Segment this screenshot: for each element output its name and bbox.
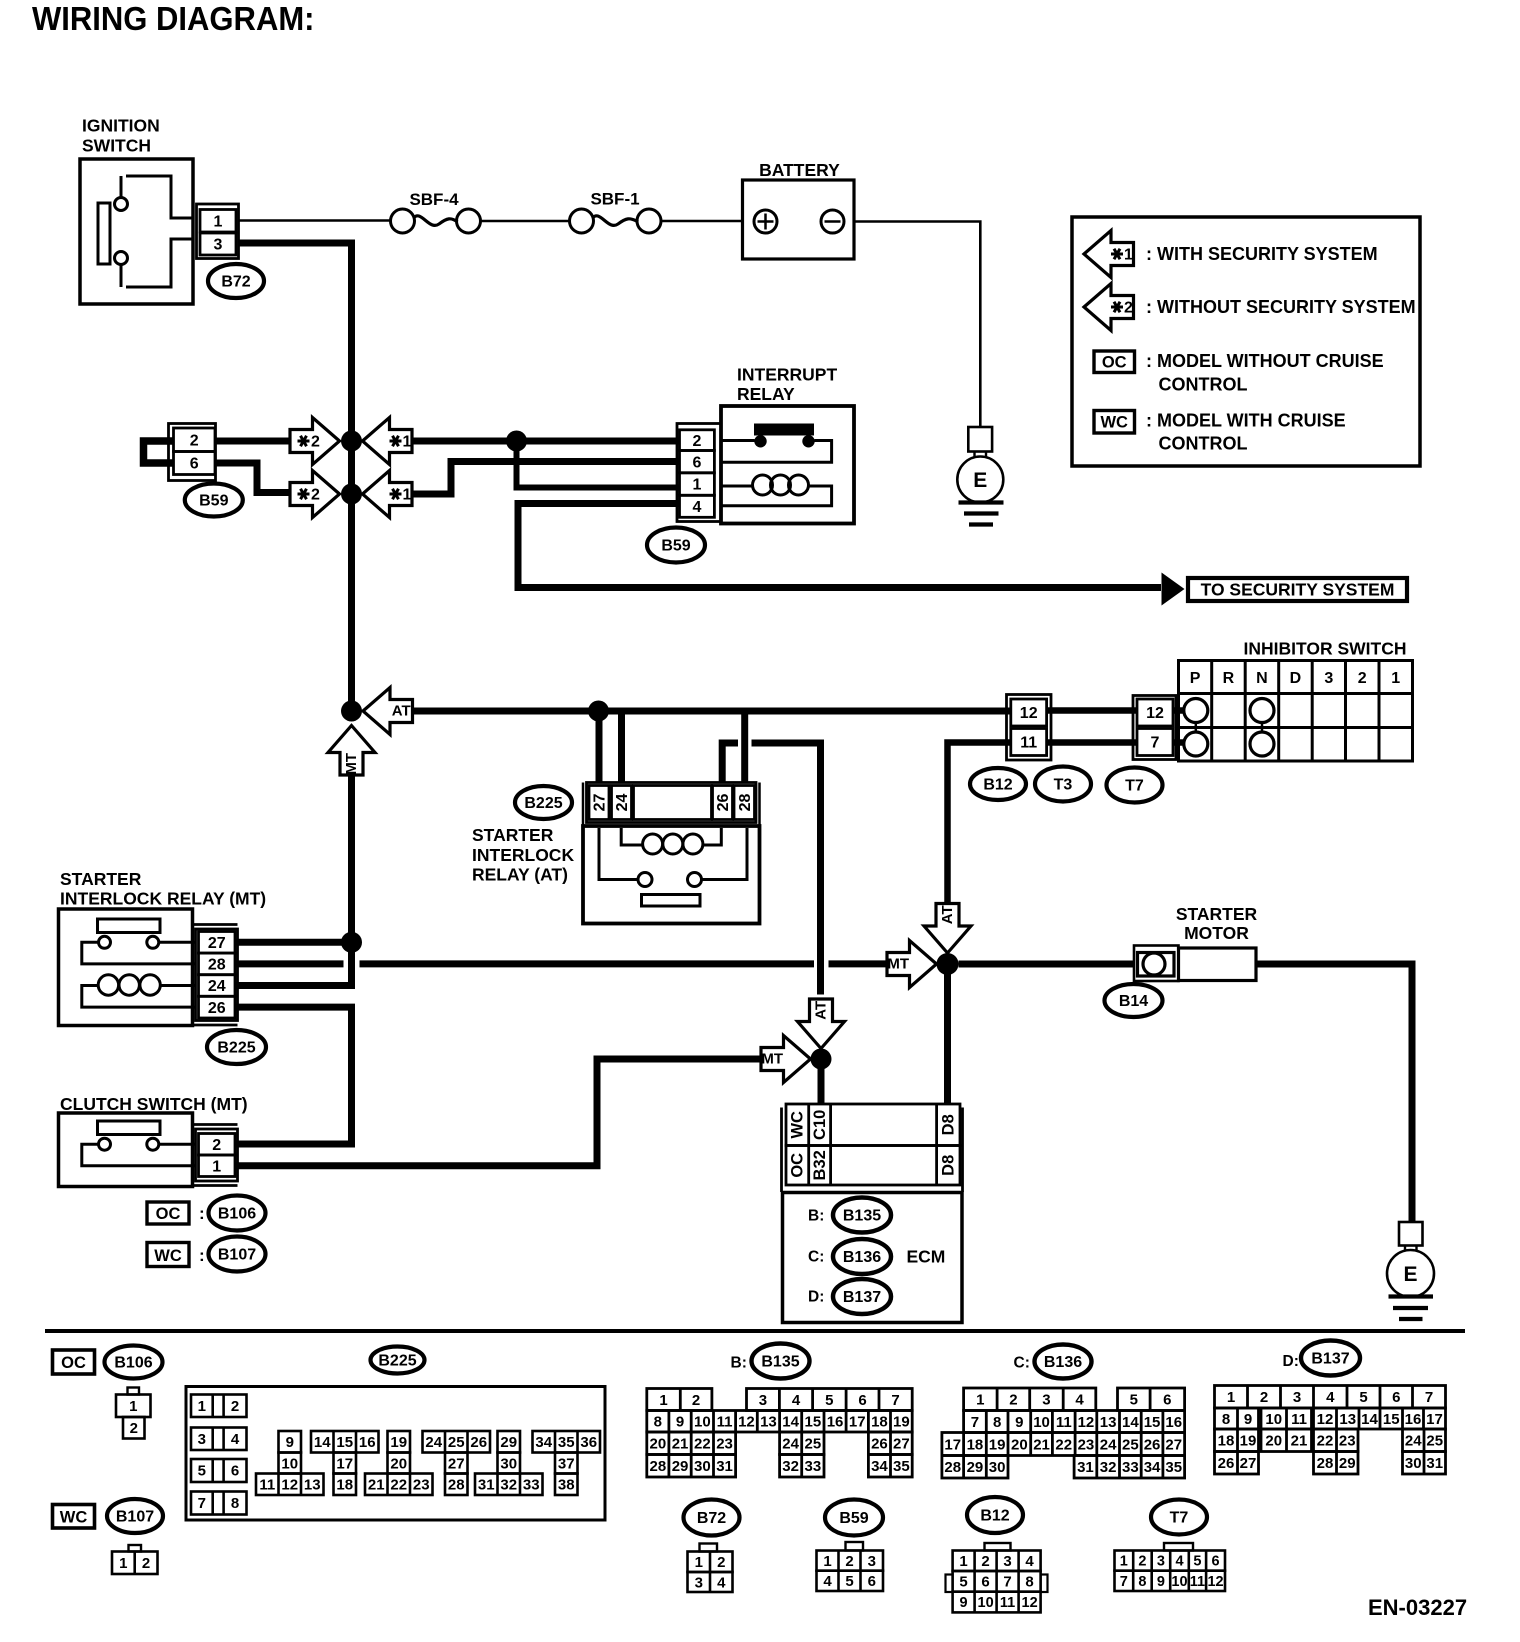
svg-text:12: 12 — [1146, 705, 1164, 722]
svg-text:18: 18 — [336, 1477, 353, 1494]
bottom connector B135 pin layout — [647, 1389, 912, 1478]
svg-text:22: 22 — [1055, 1436, 1072, 1453]
svg-text:P: P — [1190, 670, 1201, 687]
svg-text:2: 2 — [190, 432, 199, 449]
svg-text:30: 30 — [1405, 1455, 1422, 1472]
svg-text:INTERLOCK: INTERLOCK — [472, 845, 574, 865]
svg-text:24: 24 — [614, 794, 631, 812]
wire drop to relay AT pin 24 — [618, 711, 625, 783]
svg-text:28: 28 — [448, 1477, 465, 1494]
svg-text:9: 9 — [676, 1414, 684, 1431]
svg-text:D:: D: — [808, 1289, 824, 1306]
svg-text:INTERRUPT: INTERRUPT — [737, 365, 837, 385]
svg-text:MT: MT — [343, 753, 360, 775]
svg-text:25: 25 — [1426, 1433, 1443, 1450]
legend WC box — [1094, 411, 1135, 434]
ground E (starter motor) — [1387, 1222, 1434, 1319]
starter motor — [1134, 946, 1256, 982]
arrow MT (ECM junction) — [761, 1036, 811, 1083]
svg-text:11: 11 — [1291, 1411, 1307, 1428]
bottom connector label B136 — [1014, 1345, 1092, 1379]
svg-text:RELAY (AT): RELAY (AT) — [472, 865, 568, 885]
svg-text:26: 26 — [208, 1000, 226, 1017]
junction dot ECM C10 — [811, 1049, 832, 1070]
ECM connector B137 — [808, 1279, 891, 1314]
svg-text:20: 20 — [390, 1455, 407, 1472]
svg-text:6: 6 — [231, 1463, 239, 1480]
svg-text:INHIBITOR SWITCH: INHIBITOR SWITCH — [1244, 639, 1407, 659]
fuse SBF-4 — [391, 190, 481, 233]
svg-text:AT: AT — [813, 1001, 830, 1020]
svg-text:5: 5 — [1193, 1554, 1201, 1570]
wire MT arrow down to relay MT pin24 — [235, 773, 352, 986]
svg-text:R: R — [1223, 670, 1235, 687]
svg-text:7: 7 — [891, 1392, 899, 1409]
wire B12 pin11 to T7 pin7 — [1047, 739, 1137, 746]
svg-text:22: 22 — [694, 1436, 711, 1453]
svg-text:WC: WC — [789, 1111, 807, 1139]
svg-text:12: 12 — [1022, 1595, 1038, 1611]
svg-text:12: 12 — [1078, 1414, 1095, 1431]
ECM connector B135 — [808, 1198, 891, 1233]
arrow to security system — [1162, 573, 1185, 606]
svg-text:: WITH SECURITY SYSTEM: : WITH SECURITY SYSTEM — [1146, 244, 1378, 264]
bottom connector B137 pin layout — [1215, 1386, 1446, 1475]
wire battery to ground E — [854, 222, 980, 428]
wire relay AT pin 26 to ECM branch — [722, 743, 820, 995]
svg-text:C:: C: — [808, 1249, 824, 1266]
svg-text:STARTER: STARTER — [60, 869, 142, 889]
wire junction down to ECM D8 — [944, 964, 951, 1104]
bottom connector B59 pin layout — [817, 1542, 884, 1591]
svg-text:37: 37 — [558, 1455, 575, 1472]
svg-text:T3: T3 — [1054, 777, 1073, 794]
svg-text:6: 6 — [858, 1392, 866, 1409]
svg-text:6: 6 — [868, 1573, 876, 1590]
interrupt relay coil — [721, 475, 832, 506]
ground E (battery) — [957, 427, 1003, 525]
legend box — [1072, 217, 1420, 466]
arrow *1 (upper) — [363, 418, 413, 465]
bottom connector B225 pin layout — [186, 1387, 605, 1521]
svg-text:B135: B135 — [761, 1354, 799, 1371]
junction dot before interrupt relay — [506, 431, 527, 452]
svg-text:35: 35 — [893, 1458, 910, 1475]
svg-text:INTERLOCK RELAY (MT): INTERLOCK RELAY (MT) — [60, 889, 266, 909]
svg-text:13: 13 — [1100, 1414, 1117, 1431]
wire B12 pin12 to T7 pin12 — [1047, 707, 1137, 714]
svg-text:9: 9 — [286, 1434, 294, 1451]
svg-text:32: 32 — [782, 1458, 799, 1475]
svg-text:34: 34 — [1144, 1459, 1161, 1476]
svg-text:6: 6 — [190, 456, 199, 473]
wire junction to starter motor — [959, 961, 1135, 968]
svg-text:4: 4 — [1175, 1554, 1183, 1570]
svg-text:16: 16 — [1405, 1411, 1422, 1428]
svg-text:28: 28 — [944, 1459, 961, 1476]
svg-text:29: 29 — [967, 1459, 984, 1476]
wire interrupt relay pin4 to security system — [518, 504, 1161, 588]
clutch switch connector pins 2,1 — [194, 1125, 238, 1186]
svg-text:C:: C: — [1014, 1355, 1030, 1372]
bottom connector label B106 — [105, 1346, 163, 1379]
svg-text:B12: B12 — [983, 777, 1012, 794]
svg-text:6: 6 — [1163, 1392, 1171, 1409]
svg-text:23: 23 — [413, 1477, 430, 1494]
svg-text:4: 4 — [717, 1574, 726, 1591]
svg-text:38: 38 — [558, 1477, 575, 1494]
svg-text:30: 30 — [694, 1458, 711, 1475]
svg-text:22: 22 — [1317, 1433, 1334, 1450]
svg-text:B59: B59 — [199, 493, 228, 510]
svg-text:2: 2 — [311, 487, 320, 504]
svg-text:1: 1 — [212, 1158, 221, 1175]
svg-text:1: 1 — [1124, 247, 1133, 264]
svg-text:1: 1 — [659, 1392, 667, 1409]
svg-text:B72: B72 — [221, 274, 250, 291]
svg-text:19: 19 — [989, 1436, 1006, 1453]
svg-text:12: 12 — [1207, 1574, 1223, 1590]
svg-text:11: 11 — [1190, 1574, 1205, 1590]
svg-text:3: 3 — [1293, 1389, 1301, 1406]
svg-text:1: 1 — [1227, 1389, 1235, 1406]
bottom connector B12 pin layout — [946, 1543, 1048, 1612]
svg-text:15: 15 — [1144, 1414, 1161, 1431]
svg-text:24: 24 — [1405, 1433, 1422, 1450]
wire SBF-4 to SBF-1 — [481, 220, 570, 223]
svg-text:2: 2 — [142, 1555, 150, 1572]
svg-text:1: 1 — [823, 1553, 831, 1570]
svg-text:SBF-4: SBF-4 — [409, 190, 459, 209]
svg-text:WIRING DIAGRAM:: WIRING DIAGRAM: — [32, 0, 315, 37]
bottom connector T7 pin layout — [1115, 1543, 1226, 1591]
svg-text:25: 25 — [805, 1436, 822, 1453]
svg-text:16: 16 — [1165, 1414, 1182, 1431]
svg-text:B225: B225 — [378, 1353, 416, 1370]
svg-text:34: 34 — [871, 1458, 888, 1475]
junction dot upper bowtie — [341, 431, 362, 452]
svg-text:6: 6 — [692, 454, 701, 471]
battery — [743, 160, 855, 259]
svg-text:4: 4 — [1326, 1389, 1335, 1406]
svg-text:29: 29 — [1339, 1455, 1356, 1472]
svg-text:2: 2 — [311, 434, 320, 451]
connector label B14 — [1105, 984, 1163, 1017]
svg-text:SWITCH: SWITCH — [82, 136, 151, 156]
connector label B59 (interrupt relay) — [647, 528, 705, 563]
svg-text:28: 28 — [208, 957, 226, 974]
ECM connector cells — [782, 1104, 963, 1192]
arrow MT (junction) — [328, 726, 375, 776]
bottom connector B107 pin layout — [112, 1545, 158, 1574]
svg-text:5: 5 — [1130, 1392, 1138, 1409]
svg-text:9: 9 — [960, 1595, 968, 1611]
wire relay MT pin28 to starter motor (main) — [235, 960, 886, 967]
starter interlock relay MT body — [59, 909, 193, 1026]
connector B72 pins 1,3 — [197, 204, 239, 259]
svg-text:29: 29 — [500, 1434, 517, 1451]
svg-text:B59: B59 — [839, 1510, 868, 1527]
arrow *2 (upper) — [290, 418, 340, 465]
svg-text:1: 1 — [692, 477, 701, 494]
svg-text:31: 31 — [716, 1458, 733, 1475]
interrupt relay contact — [721, 424, 832, 463]
svg-text:: WITHOUT SECURITY SYSTEM: : WITHOUT SECURITY SYSTEM — [1146, 297, 1416, 317]
svg-text:5: 5 — [825, 1392, 833, 1409]
svg-text:16: 16 — [827, 1414, 844, 1431]
svg-text:23: 23 — [716, 1436, 733, 1453]
svg-text:24: 24 — [425, 1434, 442, 1451]
junction dot lower bowtie — [341, 484, 362, 505]
svg-text:WC: WC — [1100, 414, 1128, 432]
svg-text:: MODEL WITHOUT CRUISE: : MODEL WITHOUT CRUISE — [1146, 351, 1384, 371]
svg-text:5: 5 — [959, 1574, 967, 1591]
inhibitor switch contacts N — [1250, 699, 1274, 757]
svg-text:B225: B225 — [217, 1040, 255, 1057]
svg-text:1: 1 — [959, 1553, 967, 1570]
svg-text:D:: D: — [1283, 1353, 1299, 1370]
svg-text:1: 1 — [214, 213, 223, 230]
fuse SBF-1 — [570, 190, 662, 234]
svg-text:11: 11 — [717, 1414, 733, 1431]
arrow MT (starter junction) — [887, 941, 937, 988]
svg-text:20: 20 — [650, 1436, 667, 1453]
svg-text:22: 22 — [390, 1477, 407, 1494]
svg-text:18: 18 — [871, 1414, 888, 1431]
svg-text:13: 13 — [1339, 1411, 1356, 1428]
starter motor label — [1176, 904, 1258, 943]
svg-text:14: 14 — [1361, 1411, 1378, 1428]
svg-text:B106: B106 — [218, 1206, 256, 1223]
wire drop to relay AT pin 28 — [741, 711, 748, 783]
svg-text:4: 4 — [823, 1573, 832, 1590]
arrow *1 (lower) — [363, 471, 413, 518]
wire drop to relay AT pin 27 — [596, 711, 603, 783]
svg-text:7: 7 — [198, 1495, 206, 1512]
svg-text:1: 1 — [403, 487, 412, 504]
interrupt relay — [721, 365, 854, 524]
svg-text:1: 1 — [119, 1555, 127, 1572]
svg-text:SBF-1: SBF-1 — [590, 190, 639, 209]
connector label B225 (relay MT) — [207, 1030, 266, 1064]
svg-text:12: 12 — [1020, 705, 1038, 722]
wire SBF-1 to battery — [661, 220, 743, 223]
svg-text:MT: MT — [887, 956, 909, 973]
wire junction down to interrupt relay pin 1 — [517, 441, 680, 488]
legend text model without cruise control — [1146, 351, 1384, 395]
wire starter motor to ground — [1256, 964, 1412, 1222]
svg-text:11: 11 — [259, 1477, 275, 1494]
svg-text:20: 20 — [1265, 1433, 1282, 1450]
svg-text:29: 29 — [672, 1458, 689, 1475]
svg-text:AT: AT — [939, 905, 956, 924]
svg-text:11: 11 — [1020, 735, 1037, 752]
svg-text:27: 27 — [1165, 1436, 1182, 1453]
svg-text:2: 2 — [1358, 670, 1367, 687]
inhibitor switch contacts P — [1184, 699, 1208, 757]
bottom connector label B59 — [825, 1500, 883, 1536]
bottom connector label B135 — [731, 1344, 810, 1379]
starter interlock relay AT contacts — [599, 828, 747, 906]
svg-text:STARTER: STARTER — [472, 825, 554, 845]
svg-text:27: 27 — [893, 1436, 910, 1453]
legend arrow *1 — [1084, 231, 1134, 278]
svg-text:17: 17 — [944, 1436, 961, 1453]
svg-text:21: 21 — [1291, 1433, 1308, 1450]
svg-text:26: 26 — [1144, 1436, 1161, 1453]
svg-text:B136: B136 — [1044, 1354, 1082, 1371]
svg-text:2: 2 — [1009, 1392, 1017, 1409]
svg-text:4: 4 — [1075, 1392, 1084, 1409]
svg-text:15: 15 — [805, 1414, 822, 1431]
svg-text:2: 2 — [212, 1137, 221, 1154]
junction dot starter motor wire — [937, 953, 959, 975]
svg-text:24: 24 — [1100, 1436, 1117, 1453]
svg-text:E: E — [1403, 1263, 1417, 1286]
svg-text:27: 27 — [592, 794, 609, 812]
junction dot AT/MT — [341, 701, 362, 722]
svg-text:2: 2 — [692, 1392, 700, 1409]
svg-text:3: 3 — [759, 1392, 767, 1409]
svg-text:OC: OC — [1102, 354, 1127, 372]
clutch switch body — [59, 1113, 193, 1187]
svg-text:6: 6 — [1212, 1554, 1220, 1570]
svg-text:18: 18 — [967, 1436, 984, 1453]
bottom connector label B12 — [967, 1497, 1023, 1533]
svg-text:3: 3 — [1042, 1392, 1050, 1409]
svg-text:N: N — [1256, 670, 1268, 687]
svg-text:2: 2 — [692, 433, 701, 450]
svg-text:7: 7 — [1425, 1389, 1433, 1406]
svg-text:27: 27 — [1240, 1455, 1257, 1472]
to security system box — [1188, 578, 1407, 601]
svg-text:8: 8 — [993, 1414, 1001, 1431]
starter interlock relay AT coil — [621, 828, 721, 854]
svg-text:21: 21 — [1033, 1436, 1050, 1453]
junction dot above starter interlock relay AT — [588, 701, 609, 722]
svg-text:6: 6 — [1392, 1389, 1400, 1406]
legend text model with cruise control — [1146, 411, 1346, 454]
starter interlock relay AT body — [583, 826, 760, 924]
svg-text:WC: WC — [154, 1247, 182, 1265]
bottom connector label B107 — [107, 1499, 163, 1533]
wire relay MT pin26 to clutch switch pin2 — [235, 1007, 352, 1144]
svg-text:12: 12 — [738, 1414, 755, 1431]
wire AT to inhibitor B12 pin 12 — [414, 708, 1011, 715]
svg-text:AT: AT — [392, 703, 411, 720]
starter interlock relay AT label — [472, 825, 574, 885]
wire B12 pin11 down to AT arrow — [948, 743, 1011, 903]
svg-text:16: 16 — [359, 1434, 376, 1451]
svg-text:36: 36 — [580, 1434, 597, 1451]
svg-text:10: 10 — [1171, 1574, 1187, 1590]
svg-text:IGNITION: IGNITION — [82, 116, 160, 136]
svg-text:B136: B136 — [843, 1249, 881, 1266]
svg-text:WC: WC — [60, 1509, 88, 1527]
svg-text:13: 13 — [304, 1477, 321, 1494]
svg-text:20: 20 — [1011, 1436, 1028, 1453]
svg-text:14: 14 — [314, 1434, 331, 1451]
svg-text:9: 9 — [1015, 1414, 1023, 1431]
bottom connector label T7 — [1151, 1500, 1207, 1535]
starter interlock relay MT contact — [82, 919, 197, 964]
svg-text:MT: MT — [761, 1051, 783, 1068]
svg-text:28: 28 — [650, 1458, 667, 1475]
svg-text:11: 11 — [1056, 1414, 1072, 1431]
svg-text:4: 4 — [1025, 1553, 1034, 1570]
svg-text:30: 30 — [500, 1455, 517, 1472]
svg-text:2: 2 — [845, 1553, 853, 1570]
svg-text:4: 4 — [231, 1431, 240, 1448]
starter interlock relay MT coil — [82, 975, 197, 1007]
svg-text:1: 1 — [695, 1554, 703, 1571]
bottom WC box — [53, 1505, 95, 1529]
svg-text:9: 9 — [1244, 1411, 1252, 1428]
ECM connector B136 — [808, 1239, 891, 1274]
svg-text:3: 3 — [695, 1574, 703, 1591]
svg-text:8: 8 — [654, 1414, 662, 1431]
clutch switch connector OC label — [147, 1202, 205, 1224]
wire jumper loop B59 pins 2-6 — [144, 441, 175, 463]
starter interlock relay MT connector pins 27,28,24,26 — [194, 925, 238, 1026]
svg-text:3: 3 — [868, 1553, 876, 1570]
svg-text:5: 5 — [845, 1573, 853, 1590]
svg-text:32: 32 — [500, 1477, 517, 1494]
clutch switch connector WC label — [147, 1243, 205, 1267]
svg-text:3: 3 — [1324, 670, 1333, 687]
svg-text:35: 35 — [558, 1434, 575, 1451]
svg-text:17: 17 — [336, 1455, 353, 1472]
svg-text:7: 7 — [1120, 1574, 1128, 1590]
starter interlock relay AT connector pins 27,24,26,28 — [583, 783, 760, 827]
bottom connector label B225 — [371, 1347, 425, 1374]
bottom connector B106 pin layout — [116, 1388, 151, 1439]
svg-text:B12: B12 — [980, 1508, 1009, 1525]
svg-text:8: 8 — [1025, 1574, 1033, 1591]
svg-text:OC: OC — [61, 1354, 86, 1372]
svg-text:8: 8 — [1222, 1411, 1230, 1428]
wire T7 pin7 to inhibitor P lower — [1173, 739, 1185, 746]
svg-text:1: 1 — [198, 1398, 206, 1415]
bottom connector B72 pin layout — [688, 1544, 733, 1593]
svg-text:: MODEL WITH CRUISE: : MODEL WITH CRUISE — [1146, 411, 1346, 431]
svg-text:12: 12 — [281, 1477, 298, 1494]
svg-text:2: 2 — [1124, 300, 1133, 317]
svg-text:T7: T7 — [1125, 778, 1144, 795]
svg-text:8: 8 — [231, 1495, 239, 1512]
svg-text:OC: OC — [156, 1205, 181, 1223]
svg-text:7: 7 — [1003, 1574, 1011, 1591]
bottom OC box — [53, 1350, 95, 1374]
svg-text:D: D — [1290, 670, 1302, 687]
svg-text:CLUTCH SWITCH (MT): CLUTCH SWITCH (MT) — [60, 1094, 248, 1114]
svg-text:10: 10 — [694, 1414, 711, 1431]
svg-text:13: 13 — [760, 1414, 777, 1431]
wire to interrupt relay pin 2 — [414, 438, 680, 445]
svg-text:5: 5 — [1359, 1389, 1367, 1406]
svg-text:12: 12 — [1317, 1411, 1334, 1428]
connector label B72 — [208, 264, 264, 298]
svg-text:1: 1 — [403, 434, 412, 451]
svg-text:15: 15 — [336, 1434, 353, 1451]
wire to interrupt relay pin 6 — [414, 462, 680, 495]
arrow AT (starter junction) — [924, 904, 971, 954]
svg-text:CONTROL: CONTROL — [1159, 434, 1248, 454]
legend arrow *2 — [1084, 284, 1134, 331]
svg-text:19: 19 — [893, 1414, 910, 1431]
svg-text:D8: D8 — [939, 1155, 957, 1176]
svg-text:31: 31 — [1426, 1455, 1443, 1472]
